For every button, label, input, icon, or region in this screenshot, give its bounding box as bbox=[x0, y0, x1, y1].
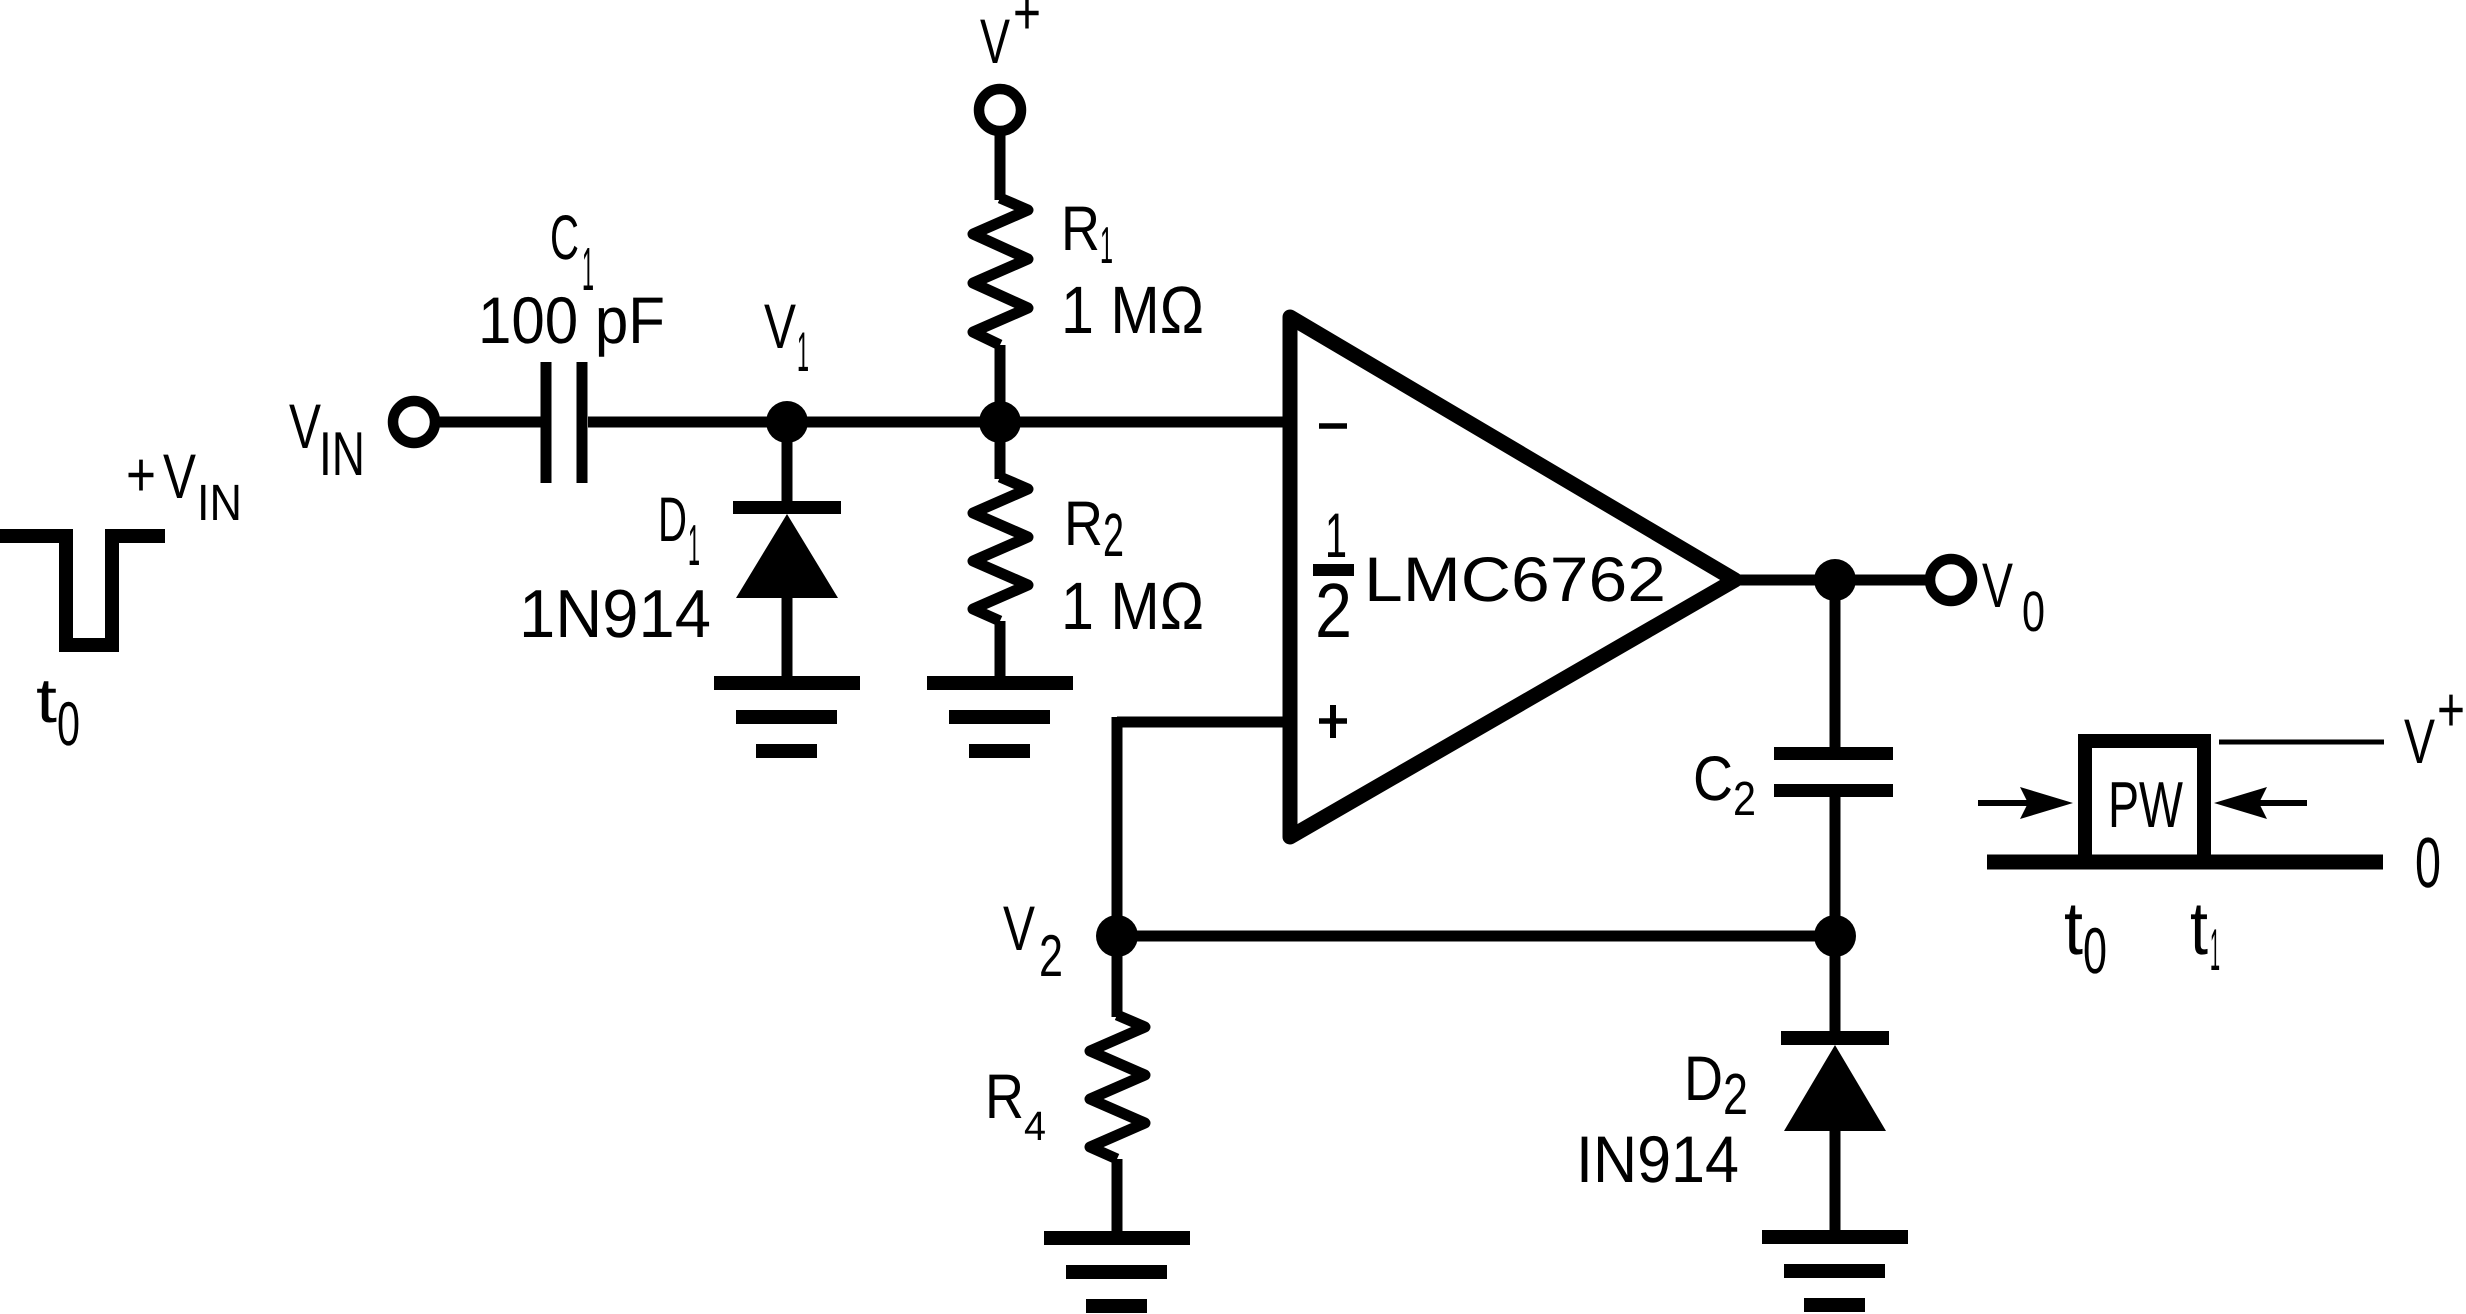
label V2 bbox=[1003, 894, 1063, 989]
svg-text:1 MΩ: 1 MΩ bbox=[1061, 569, 1204, 644]
op-amp plus marker bbox=[1319, 705, 1347, 738]
wire junction to D2 bbox=[1830, 936, 1841, 1035]
node C2/D2 junction bbox=[1814, 915, 1856, 957]
svg-text:1: 1 bbox=[688, 513, 700, 578]
svg-text:1: 1 bbox=[797, 320, 809, 383]
svg-text:D: D bbox=[1684, 1044, 1723, 1114]
svg-text:4: 4 bbox=[1024, 1103, 1046, 1149]
label C1 bbox=[550, 203, 594, 303]
svg-text:t: t bbox=[2064, 886, 2083, 970]
svg-text:0: 0 bbox=[2083, 914, 2107, 987]
wire C2 to V2 line bbox=[1830, 796, 1841, 936]
label V1 bbox=[764, 292, 809, 383]
svg-text:IN914: IN914 bbox=[1576, 1122, 1739, 1196]
node V2 bbox=[1096, 915, 1138, 957]
label t0 input bbox=[36, 666, 80, 759]
svg-text:2: 2 bbox=[1315, 568, 1352, 654]
svg-text:1: 1 bbox=[1325, 501, 1347, 571]
label R1 bbox=[1061, 194, 1113, 275]
arrow left PW bbox=[1978, 787, 2073, 819]
wire R4 to ground bbox=[1112, 1159, 1123, 1238]
node output junction bbox=[1814, 559, 1856, 601]
label R2 bbox=[1064, 489, 1124, 569]
wire VIN to C1 bbox=[437, 417, 543, 428]
svg-text:V: V bbox=[1982, 551, 2013, 621]
wire junction to R2 bbox=[995, 422, 1006, 479]
wire V+ to R1 bbox=[995, 133, 1006, 200]
wire op-amp output to V0 bbox=[1735, 575, 1931, 586]
ground for R2 bbox=[927, 676, 1073, 758]
diode D1 bbox=[733, 501, 841, 683]
capacitor C1 bbox=[546, 362, 582, 483]
svg-text:1: 1 bbox=[1100, 217, 1113, 275]
resistor R2 bbox=[973, 477, 1028, 621]
node V1/R1/R2 junction bbox=[979, 401, 1021, 443]
svg-text:LMC6762: LMC6762 bbox=[1364, 545, 1666, 615]
label D2 bbox=[1684, 1044, 1748, 1127]
svg-text:1: 1 bbox=[2210, 917, 2220, 983]
resistor R4 bbox=[1090, 1015, 1145, 1159]
ground for D1 bbox=[714, 676, 860, 758]
wire V2 to R4 bbox=[1112, 936, 1123, 1017]
output waveform baseline bbox=[1987, 855, 2383, 870]
label D1 bbox=[658, 485, 700, 578]
ground for R4 bbox=[1044, 1231, 1190, 1313]
output waveform V+ level line bbox=[2219, 740, 2384, 745]
svg-text:+: + bbox=[2437, 675, 2465, 745]
svg-text:2: 2 bbox=[1103, 501, 1124, 569]
svg-text:PW: PW bbox=[2108, 768, 2183, 841]
wire feedback V2 to plus input bbox=[1117, 717, 1290, 936]
svg-text:R: R bbox=[1064, 489, 1103, 559]
svg-text:+: + bbox=[1013, 0, 1041, 48]
svg-text:0: 0 bbox=[57, 690, 80, 759]
svg-text:IN: IN bbox=[197, 474, 242, 531]
capacitor C2 bbox=[1774, 747, 1893, 797]
svg-text:2: 2 bbox=[1039, 923, 1063, 989]
label t0 output bbox=[2064, 886, 2107, 987]
svg-text:2: 2 bbox=[1723, 1062, 1748, 1127]
label 1/2 fraction bbox=[1313, 501, 1354, 654]
label VIN bbox=[289, 392, 365, 489]
svg-text:t: t bbox=[2190, 886, 2208, 970]
label V0 bbox=[1982, 551, 2045, 644]
input waveform bbox=[0, 536, 165, 645]
svg-text:C: C bbox=[1693, 744, 1733, 814]
label R4 bbox=[985, 1062, 1046, 1149]
wire V1 to D1 bbox=[782, 422, 793, 505]
svg-text:V: V bbox=[980, 7, 1010, 77]
arrow right PW bbox=[2214, 787, 2307, 819]
svg-text:1N914: 1N914 bbox=[519, 576, 711, 652]
op-amp minus marker bbox=[1319, 423, 1347, 429]
svg-text:0: 0 bbox=[2415, 824, 2441, 903]
label C2 bbox=[1693, 744, 1756, 826]
svg-text:D: D bbox=[658, 485, 687, 555]
label +VIN bbox=[126, 440, 242, 531]
svg-text:V: V bbox=[764, 292, 796, 362]
op-amp U1 1/2 LMC6762 bbox=[1290, 317, 1735, 837]
svg-text:R: R bbox=[1061, 194, 1100, 264]
svg-text:V: V bbox=[1003, 894, 1035, 964]
node V+ terminal bbox=[979, 89, 1021, 131]
wire C1 to op-amp minus input bbox=[588, 417, 1284, 428]
wire V2 horizontal bbox=[1117, 931, 1835, 942]
svg-text:V: V bbox=[2404, 707, 2435, 777]
svg-text:2: 2 bbox=[1733, 773, 1756, 826]
svg-text:0: 0 bbox=[2022, 580, 2045, 644]
svg-text:V: V bbox=[163, 442, 196, 512]
label V+ bbox=[980, 0, 1041, 77]
svg-text:V: V bbox=[289, 392, 321, 462]
resistor R1 bbox=[973, 198, 1028, 345]
label t1 output bbox=[2190, 886, 2220, 983]
wire R1 to junction bbox=[995, 345, 1006, 422]
node V0 terminal bbox=[1930, 559, 1972, 601]
svg-text:+: + bbox=[126, 440, 156, 510]
svg-text:IN: IN bbox=[319, 420, 365, 489]
node V1 bbox=[766, 401, 808, 443]
svg-text:100 pF: 100 pF bbox=[478, 283, 665, 357]
output waveform pulse bbox=[2085, 741, 2204, 862]
wire output to C2 bbox=[1830, 580, 1841, 749]
node VIN input terminal bbox=[393, 401, 435, 443]
diode D2 bbox=[1781, 1031, 1889, 1237]
svg-text:C: C bbox=[550, 203, 579, 273]
svg-text:R: R bbox=[985, 1062, 1024, 1132]
wire R2 to ground bbox=[995, 621, 1006, 683]
ground for D2 bbox=[1762, 1230, 1908, 1312]
svg-text:t: t bbox=[36, 666, 58, 736]
label V+ right bbox=[2404, 675, 2465, 777]
svg-text:1 MΩ: 1 MΩ bbox=[1061, 273, 1204, 348]
